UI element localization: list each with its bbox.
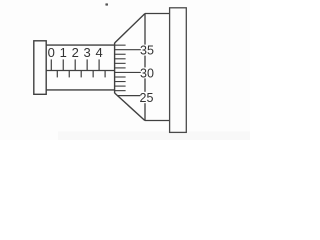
thimble bevel right vertical edge — [144, 14, 146, 121]
sleeve scale numbers 0 1 2 3 4 — [48, 45, 103, 60]
sleeve major ticks 0-4 — [51, 59, 99, 70]
thimble bevel left vertical edge (tick line) — [114, 43, 116, 93]
svg-text:25: 25 — [140, 91, 154, 105]
label 35 background — [141, 45, 153, 56]
label 25 background — [140, 92, 152, 103]
svg-text:0: 0 — [48, 45, 55, 60]
svg-text:3: 3 — [84, 45, 91, 60]
thimble long tick 25 — [117, 95, 141, 97]
thimble short ticks — [115, 45, 126, 91]
svg-text:1: 1 — [60, 45, 67, 60]
stray dot artifact top — [105, 3, 108, 5]
thimble bevel top diagonal — [115, 14, 145, 44]
thimble barrel bottom edge — [145, 120, 170, 122]
svg-text:35: 35 — [140, 44, 154, 58]
sleeve half ticks — [57, 71, 105, 78]
sleeve bottom edge — [46, 89, 114, 91]
faint scan band bottom — [58, 132, 250, 141]
thimble long tick 35 — [115, 49, 142, 51]
thimble long tick 30 — [115, 71, 142, 73]
svg-text:2: 2 — [72, 45, 79, 60]
thimble bevel bottom diagonal — [115, 93, 145, 121]
sleeve top edge — [46, 44, 114, 46]
thimble barrel top edge — [145, 13, 170, 15]
svg-text:4: 4 — [95, 45, 102, 60]
thimble end cap rectangle — [170, 8, 187, 133]
svg-text:30: 30 — [140, 66, 154, 80]
micrometer lock-nut rectangle (left) — [34, 41, 46, 95]
sleeve datum line — [46, 70, 114, 72]
label 30 background — [141, 67, 153, 78]
